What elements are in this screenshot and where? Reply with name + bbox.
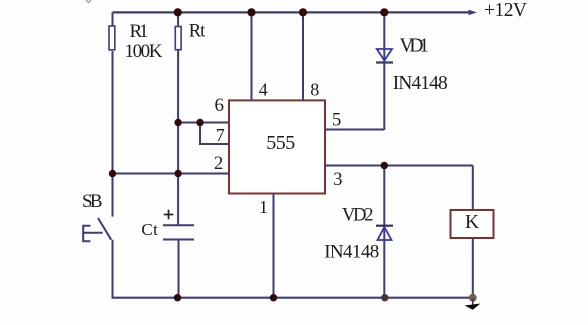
label + polarity [164, 210, 174, 220]
svg-text:100K: 100K [125, 41, 163, 62]
svg-text:7: 7 [216, 125, 225, 145]
diode VD2 [376, 226, 393, 240]
svg-text:IN4148: IN4148 [393, 73, 448, 94]
junction top rail at pin 8 [299, 8, 307, 16]
junction top rail at VD1 [380, 8, 388, 16]
svg-text:2: 2 [214, 154, 223, 174]
svg-text:4: 4 [259, 80, 268, 100]
diode VD1 [376, 49, 393, 63]
wire relay K to bottom rail [472, 238, 474, 299]
resistor Rt [175, 12, 181, 49]
capacitor Ct [163, 225, 194, 297]
switch SB [83, 174, 112, 298]
svg-text:Rt: Rt [189, 22, 206, 42]
junction bottom rail at Ct [174, 294, 181, 301]
svg-text:Ct: Ct [141, 220, 158, 239]
svg-text:R1: R1 [130, 21, 149, 42]
wire node A (Rt bottom to Ct top, taps to pins 6 and 2) [177, 50, 179, 225]
wire pin 3 [325, 165, 473, 167]
junction pin 2 at node A [174, 170, 181, 177]
wire pin 4 to rail [251, 12, 253, 100]
faint chevron artifact top edge [86, 0, 91, 3]
wire pin3 corner down to relay K [472, 166, 474, 211]
svg-text:3: 3 [333, 170, 342, 190]
svg-text:VD2: VD2 [342, 206, 374, 226]
wire top rail +12V [113, 11, 471, 13]
svg-text:SB: SB [82, 191, 103, 212]
junction bottom rail at relay [469, 294, 477, 302]
junction top rail at Rt [174, 8, 182, 16]
junction top rail at pin 4 [247, 8, 255, 16]
junction bottom rail at VD2 [381, 294, 388, 301]
resistor R1 [109, 12, 115, 173]
svg-text:6: 6 [215, 95, 225, 116]
power +12V arrow and label [469, 0, 528, 21]
wire bottom rail [112, 297, 473, 299]
wire VD1 branch from rail to pin 5 [383, 12, 385, 130]
svg-text:555: 555 [266, 132, 295, 154]
wire pin 2 [113, 173, 230, 175]
junction pin 3 at VD2 [381, 162, 388, 169]
wire pin 5 [325, 129, 384, 131]
junction pin 6 / pin 7 split [196, 119, 203, 126]
svg-text:VD1: VD1 [400, 36, 430, 57]
svg-text:+12V: +12V [484, 0, 527, 21]
wire VD2 branch from pin 3 wire to bottom rail [383, 166, 385, 298]
svg-text:IN4148: IN4148 [324, 242, 379, 263]
junction pin 6 at node A [174, 119, 181, 126]
wire pin 8 to rail [302, 12, 304, 100]
relay K box [451, 210, 494, 238]
svg-text:8: 8 [310, 80, 319, 100]
junction pin 2 at R1 [109, 170, 116, 177]
op-amp U1 555 timer box [229, 100, 325, 193]
wire pin 6 [178, 122, 229, 124]
svg-text:1: 1 [259, 197, 268, 217]
svg-text:5: 5 [332, 111, 341, 131]
junction bottom rail at pin 1 [270, 294, 277, 301]
cursor artifact mark bottom right [465, 299, 481, 310]
svg-text:K: K [465, 212, 479, 233]
wire pin 1 to bottom rail [273, 194, 275, 298]
wire pin 7 [200, 123, 229, 145]
